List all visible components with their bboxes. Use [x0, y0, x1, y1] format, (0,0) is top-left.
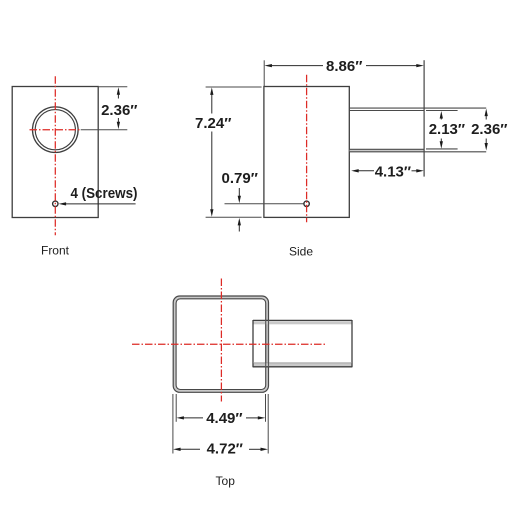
top view arm bottom gray band: [253, 363, 352, 367]
dimension 2.36 front dimension line and arrows: [117, 87, 120, 129]
dimension 7.24 line and arrows: [210, 87, 213, 216]
top view square right edge over arm: [266, 320, 269, 367]
dimension 7.24 extension lines: [206, 87, 262, 217]
svg-text:0.79″: 0.79″: [222, 170, 258, 187]
svg-text:4.13″: 4.13″: [375, 163, 411, 180]
centerline vertical side: [306, 75, 308, 223]
dimension 4.72 extension lines: [173, 394, 268, 454]
dimension 2.13 arrows: [440, 111, 443, 149]
centerline vertical top view: [220, 279, 222, 402]
top view square outer (gray wall ring): [173, 296, 268, 392]
centerline horizontal front circle: [30, 129, 80, 131]
dimension 4.13 line and arrows: [351, 169, 424, 172]
svg-text:4.49″: 4.49″: [206, 410, 242, 427]
svg-text:4.72″: 4.72″: [207, 441, 243, 458]
dimension 4.49 line and arrows: [176, 416, 265, 419]
dimension 2.36 front extension lines: [81, 87, 128, 130]
front hole outer circle: [33, 107, 79, 153]
side arm top outer line: [350, 107, 487, 109]
front hole inner circle: [35, 110, 75, 150]
top view arm top gray band: [253, 321, 352, 324]
side arm bottom inner extension stub: [426, 148, 458, 150]
side screw extension line: [225, 203, 305, 205]
dimension 2.36 side arrows: [485, 109, 488, 151]
centerline vertical front: [54, 76, 56, 235]
side arm top inner extension stub: [426, 110, 458, 112]
side arm bottom gray band: [350, 150, 424, 152]
svg-text:Front: Front: [41, 244, 70, 258]
screws leader arrow: [59, 202, 136, 205]
dimension 4.72 line and arrows: [173, 448, 268, 451]
dimension 0.79 arrows: [238, 188, 241, 232]
svg-text:2.36″: 2.36″: [101, 102, 137, 119]
svg-text:Side: Side: [289, 245, 313, 259]
side arm bottom inner line: [350, 148, 424, 150]
svg-text:4 (Screws): 4 (Screws): [71, 185, 138, 202]
side arm top inner line: [350, 110, 424, 112]
side arm bottom outer line: [350, 151, 487, 153]
side body rectangle: [264, 87, 349, 218]
svg-text:7.24″: 7.24″: [195, 115, 231, 132]
top view square inner: [176, 299, 266, 390]
top view arm outline: [253, 320, 352, 367]
dimension 4.49 extension lines: [176, 394, 265, 422]
front screw hole: [53, 201, 58, 206]
dimension 8.86 line and arrows: [264, 64, 423, 67]
svg-text:2.36″: 2.36″: [471, 121, 507, 138]
side screw hole: [304, 201, 309, 206]
front body rectangle: [12, 87, 98, 218]
centerline horizontal top view: [132, 343, 327, 345]
top view arm bottom band upper thin line: [253, 362, 352, 364]
svg-text:2.13″: 2.13″: [429, 121, 465, 138]
svg-text:Top: Top: [216, 474, 236, 488]
dimension 8.86 extension line left: [263, 60, 265, 86]
svg-text:8.86″: 8.86″: [326, 58, 362, 75]
side arm right edge and extension line: [423, 60, 425, 176]
